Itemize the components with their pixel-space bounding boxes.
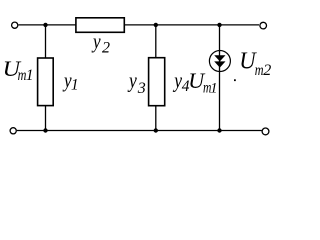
terminal port1 top (12, 22, 18, 28)
junction node top-2 (154, 23, 158, 27)
junction node top-3 (217, 23, 221, 27)
svg-text:1: 1 (26, 67, 34, 84)
controlled current source y4*Um1 (209, 51, 230, 72)
stray dot mark (234, 79, 236, 81)
svg-text:3: 3 (137, 80, 146, 97)
terminal port2 top (260, 22, 267, 29)
svg-text:y: y (173, 68, 182, 93)
terminal port2 bottom (262, 128, 269, 135)
admittance y3 (149, 58, 165, 106)
junction node bottom-2 (154, 128, 158, 132)
junction node bottom-3 (217, 128, 221, 132)
svg-text:2: 2 (102, 40, 110, 57)
wire branch y3 (155, 25, 157, 131)
svg-text:1: 1 (210, 81, 217, 97)
wire branch y1 (45, 25, 47, 131)
svg-text:2: 2 (263, 62, 271, 79)
svg-text:1: 1 (71, 76, 79, 93)
junction node bottom-1 (43, 128, 47, 132)
wire branch source (219, 25, 221, 131)
svg-text:y: y (91, 29, 101, 53)
admittance y2 (76, 18, 124, 33)
terminal port1 bottom (10, 128, 16, 134)
wire bottom rail (17, 130, 262, 132)
admittance y1 (38, 58, 54, 106)
junction node top-1 (43, 23, 47, 27)
svg-text:y: y (127, 68, 136, 93)
wire top rail (18, 24, 259, 26)
